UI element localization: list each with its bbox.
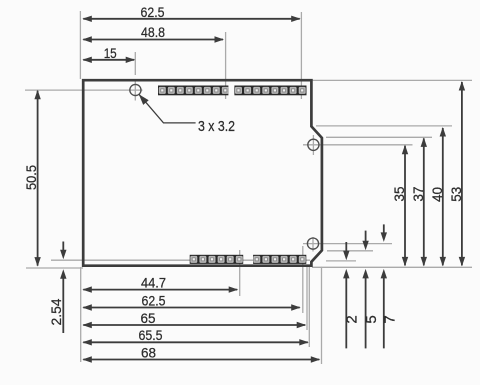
dimension 50.5 left — [23, 90, 41, 267]
dimension 40 right — [429, 127, 446, 266]
svg-text:65.5: 65.5 — [139, 327, 163, 343]
extension line / crosshair horizontal through hole H2 for 35 dim — [303, 144, 413, 146]
dimension 35 right — [391, 145, 408, 267]
dimension 2 bottom right (chamfer bottom to edge) — [343, 242, 360, 348]
svg-text:37: 37 — [410, 186, 426, 201]
svg-text:44.7: 44.7 — [141, 274, 166, 290]
dimension 65.5 bottom — [82, 327, 308, 345]
svg-text:7: 7 — [382, 315, 399, 323]
dimension 68 bottom — [82, 344, 320, 362]
dimension 44.7 bottom — [82, 274, 238, 293]
board outline (PCB edge with right-side notch and chamfer) — [83, 80, 322, 266]
svg-text:2: 2 — [343, 315, 360, 323]
svg-text:3 x 3.2: 3 x 3.2 — [198, 118, 235, 135]
svg-text:35: 35 — [391, 186, 407, 201]
extension line board left edge extended down for bottom dims — [80, 267, 82, 362]
top pin header J1 (8 pins) — [158, 86, 229, 96]
svg-text:65: 65 — [141, 310, 156, 326]
extension line bottom pin-row for 2.54 dim — [51, 259, 310, 261]
dimension 48.8 top — [82, 24, 224, 43]
svg-text:15: 15 — [104, 45, 117, 61]
extension line bottom edge left of board for 50.5 and 2.54 dims — [26, 267, 83, 269]
dimension 7 bottom right (hole H3 to edge) — [381, 224, 399, 348]
svg-text:62.5: 62.5 — [142, 292, 166, 308]
extension line / crosshair vertical through hole H1 — [134, 52, 136, 101]
dimension 5 bottom right (chamfer top to edge) — [362, 231, 380, 349]
dimension 65 bottom — [82, 310, 306, 328]
extension line for 62.5 top dim through top header pin — [300, 12, 302, 99]
extension line for top dims at board left edge — [79, 11, 81, 79]
extension line for 65 dim — [306, 267, 308, 331]
svg-text:62.5: 62.5 — [141, 4, 165, 20]
svg-text:68: 68 — [141, 344, 156, 360]
mounting hole H1 (top left, 3.2mm) — [130, 84, 141, 95]
dimension 62.5 top — [82, 4, 300, 22]
extension line / crosshair horizontal through hole H1 for 50.5 dim — [25, 89, 143, 91]
svg-text:5: 5 — [363, 315, 380, 323]
top pin header J2 (8 pins) — [234, 86, 306, 96]
dimension 37 right — [410, 137, 427, 266]
bottom pin header J4 (6 pins) — [253, 255, 306, 264]
extension line for 68 dim at board right edge — [321, 267, 323, 364]
bottom pin header J3 (6 pins) — [190, 255, 244, 264]
mounting hole H2 (right upper) — [308, 139, 319, 150]
extension line notch bottom corner for 37 dim — [326, 136, 432, 138]
svg-text:40: 40 — [429, 187, 445, 202]
extension line top edge extended right for 53 dim — [312, 79, 472, 81]
dimension 2.54 left (pin row to bottom edge) — [48, 242, 67, 334]
svg-text:48.8: 48.8 — [141, 24, 165, 40]
svg-text:50.5: 50.5 — [23, 165, 39, 190]
leader label 3 x 3.2 (mounting hole size) — [139, 94, 235, 135]
extension line / crosshair vertical through hole H3 — [312, 237, 314, 252]
mounting hole H3 (right lower) — [307, 238, 318, 249]
extension line chamfer bottom corner for 2 dim — [326, 260, 356, 262]
extension line bottom edge extended right — [312, 266, 472, 268]
dimension 62.5 bottom — [82, 292, 300, 310]
dimension 15 top — [82, 45, 135, 63]
svg-text:2.54: 2.54 — [48, 298, 64, 325]
extension line for 44.7 dim through bottom header pin — [239, 250, 241, 296]
extension line chamfer top corner for 5 dim — [327, 250, 373, 252]
extension line for 48.8 dim through top header pin — [225, 32, 227, 99]
extension line notch top corner for 40 dim — [316, 125, 452, 127]
dimension 53 right — [448, 81, 465, 266]
svg-text:53: 53 — [448, 187, 464, 202]
extension line / crosshair vertical through hole H2 — [312, 135, 314, 155]
extension line / crosshair horizontal through hole H3 for 7 dim — [303, 243, 392, 245]
extension line for 62.5 bottom dim through bottom header pin — [302, 246, 304, 313]
extension line for 65.5 dim — [308, 267, 310, 348]
